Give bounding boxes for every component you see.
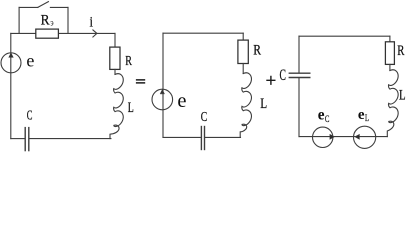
capacitor C3 plate1 <box>289 72 311 74</box>
source e1 circle <box>1 53 21 73</box>
source eL circle <box>354 126 376 148</box>
svg-text:L: L <box>399 87 406 103</box>
wire: circuit1 bottom left <box>11 138 25 140</box>
wire: switch branch left vertical <box>18 7 20 33</box>
inductor L3 <box>387 70 398 137</box>
wire: circuit1 top left <box>11 32 36 34</box>
wire: circuit1 top right of Re <box>59 32 115 34</box>
source e1 arrowhead <box>9 53 13 57</box>
wire: switch branch right vertical <box>67 7 69 33</box>
wire: R2 to L2 <box>242 64 244 74</box>
capacitor C3 plate2 <box>289 77 311 79</box>
resistor R1 body <box>110 47 120 69</box>
resistor Re body <box>36 29 59 38</box>
svg-text:R: R <box>397 43 405 59</box>
wire: circuit2 bottom right <box>205 136 241 138</box>
switch S blade <box>38 2 49 8</box>
wire: circuit2 left vertical <box>162 33 164 137</box>
wire: circuit2 bottom left <box>163 136 201 138</box>
plus sign <box>266 76 275 85</box>
resistor R3 body <box>385 42 394 65</box>
svg-text:i: i <box>90 13 94 30</box>
svg-text:e: e <box>177 90 186 112</box>
capacitor C1 plate1 <box>24 127 26 151</box>
resistor R2 body <box>238 40 248 63</box>
svg-text:R: R <box>125 52 132 68</box>
wire: R1 to L1 <box>114 69 116 74</box>
wire: circuit1 left vertical <box>10 33 12 138</box>
source eC circle <box>313 127 333 147</box>
wire: switch branch top left <box>19 6 38 8</box>
capacitor C2 plate2 <box>204 126 206 150</box>
svg-text:R: R <box>253 41 261 58</box>
wire: circuit3 left vertical lower <box>298 78 300 137</box>
svg-text:L: L <box>260 94 267 111</box>
wire: circuit3 bottom <box>299 136 387 138</box>
svg-text:C: C <box>201 108 207 124</box>
inductor L2 <box>240 73 251 138</box>
wire: circuit1 right vertical top <box>114 33 116 47</box>
wire: circuit2 right vertical top <box>242 33 244 40</box>
svg-text:C: C <box>27 109 33 123</box>
inductor L1 <box>110 74 123 139</box>
wire: circuit1 bottom right <box>29 138 111 140</box>
svg-text:R: R <box>41 13 51 29</box>
svg-text:e: e <box>318 106 325 123</box>
svg-text:L: L <box>365 113 369 123</box>
wire: circuit2 top <box>163 32 243 34</box>
wire: R3 to L3 <box>389 64 391 70</box>
wire: circuit3 top <box>299 35 390 37</box>
svg-text:L: L <box>128 99 134 115</box>
wire: circuit3 left vertical upper <box>298 36 300 72</box>
svg-text:э: э <box>50 16 54 27</box>
wire: switch branch top right <box>50 6 68 8</box>
svg-text:e: e <box>358 107 365 123</box>
source e2 circle <box>152 89 173 110</box>
source eL arrowhead <box>355 134 360 139</box>
wire: circuit3 right vertical top <box>389 36 391 42</box>
capacitor C2 plate1 <box>200 126 202 150</box>
svg-text:C: C <box>280 67 286 84</box>
capacitor C1 plate2 <box>28 127 30 151</box>
svg-text:C: C <box>325 114 330 124</box>
wire arrow i <box>93 30 97 37</box>
source e2 arrowhead <box>160 90 164 94</box>
svg-text:e: e <box>26 50 34 70</box>
equals sign <box>136 80 145 83</box>
source eC arrowhead <box>330 134 335 139</box>
